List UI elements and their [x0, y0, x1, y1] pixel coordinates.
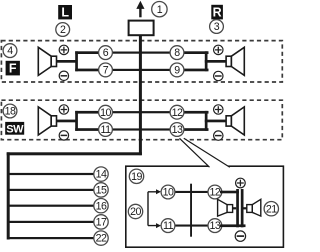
svg-text:10: 10: [100, 107, 111, 119]
svg-text:11: 11: [101, 124, 112, 136]
callout wedge to node 13: [180, 138, 230, 167]
front right speaker: [226, 47, 244, 75]
label L: [58, 5, 72, 20]
wire node13i to subwoofer coil: [220, 224, 246, 227]
svg-text:11: 11: [163, 220, 174, 232]
svg-text:19: 19: [131, 171, 142, 183]
front left speaker wire: [56, 51, 106, 71]
svg-text:13: 13: [210, 220, 221, 232]
dashed box front speakers: [1, 41, 282, 82]
svg-text:22: 22: [96, 233, 107, 245]
label R: [211, 5, 223, 20]
wire node11i to node13i: [168, 225, 215, 227]
node 7: [99, 63, 113, 77]
wire node11 to node13: [106, 128, 178, 130]
node 6: [99, 46, 113, 60]
svg-text:17: 17: [96, 217, 107, 229]
minus terminal front right: [214, 71, 223, 80]
cable tick: [190, 184, 192, 237]
svg-text:F: F: [9, 62, 17, 76]
harness branch wire 15: [8, 189, 101, 191]
plus terminal sub right: [214, 105, 223, 114]
node 20: [128, 204, 142, 218]
harness branch wire 14: [8, 173, 101, 175]
node 1: [152, 2, 167, 17]
node 10 inset: [161, 185, 175, 199]
subwoofer right speaker: [226, 107, 244, 135]
plus terminal front right: [214, 45, 223, 54]
subwoofer left wire: [56, 111, 106, 131]
svg-text:12: 12: [172, 107, 183, 119]
node 17: [94, 215, 108, 229]
antenna arrow: [136, 1, 144, 18]
node 18: [3, 104, 17, 118]
main harness vertical wire: [139, 35, 142, 155]
subwoofer dual speaker left: [218, 199, 237, 216]
wire node10i to node12i: [168, 191, 215, 193]
head unit connector: [129, 21, 154, 36]
svg-text:10: 10: [163, 187, 174, 199]
svg-text:SW: SW: [6, 123, 24, 135]
minus terminal sub left: [59, 131, 68, 140]
subwoofer coil bars: [236, 189, 243, 227]
node 11: [99, 123, 113, 137]
node 4: [3, 44, 17, 58]
svg-text:L: L: [61, 6, 69, 20]
harness branch wire 17: [8, 221, 101, 223]
subwoofer dual speaker right: [244, 199, 261, 216]
svg-text:20: 20: [130, 206, 141, 218]
svg-text:15: 15: [96, 185, 107, 197]
main harness horizontal wire: [7, 152, 142, 155]
svg-text:13: 13: [172, 124, 183, 136]
node 10: [99, 105, 113, 119]
node 9: [170, 63, 184, 77]
node 16: [94, 199, 108, 213]
plus terminal front left: [59, 45, 68, 54]
node 11 inset: [161, 219, 175, 233]
node 15: [94, 183, 108, 197]
svg-text:7: 7: [103, 65, 109, 77]
plus terminal subwoofer: [236, 178, 246, 188]
svg-text:9: 9: [174, 65, 180, 77]
node 12: [170, 105, 184, 119]
label F: [6, 61, 20, 76]
node 13: [170, 123, 184, 137]
node 13 inset: [208, 219, 222, 233]
node 8: [170, 46, 184, 60]
subwoofer left speaker: [38, 107, 56, 135]
front left speaker: [38, 47, 56, 75]
minus terminal front left: [59, 71, 68, 80]
node 21: [264, 202, 278, 216]
svg-text:14: 14: [96, 169, 107, 181]
node 19: [129, 169, 143, 183]
svg-text:1: 1: [157, 4, 163, 16]
svg-text:16: 16: [96, 200, 107, 212]
wire node12i to subwoofer coil: [220, 191, 239, 194]
minus terminal subwoofer: [235, 231, 245, 241]
svg-text:6: 6: [103, 47, 109, 59]
plus terminal sub left: [59, 105, 68, 114]
left bus vertical wire: [7, 152, 10, 239]
minus terminal sub right: [214, 131, 223, 140]
wire node10 to node12: [106, 111, 178, 113]
subwoofer detail inset box: [126, 166, 284, 247]
svg-text:21: 21: [266, 203, 277, 215]
harness branch wire 16: [8, 205, 101, 207]
wire node7 to node9: [106, 69, 178, 71]
svg-text:4: 4: [7, 45, 13, 57]
svg-text:8: 8: [174, 47, 180, 59]
label SW: [5, 122, 24, 135]
node 14: [94, 167, 108, 181]
svg-text:R: R: [213, 6, 222, 20]
wire node6 to node8: [106, 52, 178, 54]
subwoofer right wire: [177, 111, 226, 131]
front right speaker wire: [177, 51, 226, 71]
svg-text:2: 2: [60, 24, 66, 36]
harness branch wire 22: [8, 237, 101, 239]
svg-text:18: 18: [5, 106, 16, 118]
node 2: [56, 23, 70, 37]
node 3: [210, 20, 224, 34]
bracket with arrows: [148, 189, 161, 228]
node 22: [94, 231, 108, 245]
node 12 inset: [208, 185, 222, 199]
dashed box subwoofer row: [1, 100, 282, 140]
svg-text:3: 3: [214, 21, 220, 33]
svg-text:12: 12: [210, 187, 221, 199]
